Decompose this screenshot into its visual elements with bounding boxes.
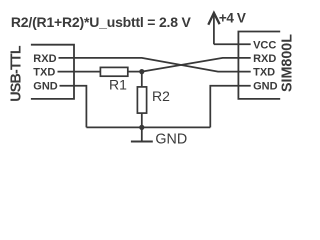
svg-text:USB-TTL: USB-TTL	[9, 45, 25, 102]
wire RXD(USB-TTL) to TXD(SIM800L)	[59, 58, 251, 72]
svg-text:R2/(R1+R2)*U_usbttl = 2.8 V: R2/(R1+R2)*U_usbttl = 2.8 V	[11, 14, 192, 30]
wire TXD(USB-TTL) to R1	[58, 71, 101, 73]
SIM800L module	[238, 32, 280, 99]
wire R1 to node A	[128, 71, 142, 73]
wire node A to RXD(SIM800L)	[142, 58, 251, 72]
ground rail junction dot	[139, 125, 144, 130]
node A junction dot	[139, 69, 144, 74]
svg-text:GND: GND	[253, 81, 278, 93]
svg-text:RXD: RXD	[33, 53, 56, 65]
svg-text:SIM800L: SIM800L	[280, 34, 296, 92]
svg-text:TXD: TXD	[253, 67, 275, 79]
wire GND(USB-TTL) down to ground rail	[60, 86, 87, 128]
wire GND(SIM800L) to ground rail	[210, 86, 250, 128]
+4 V supply arrow	[208, 13, 219, 45]
wire +4V to VCC(SIM800L)	[214, 43, 251, 45]
wire node A down to R2	[141, 72, 143, 87]
svg-text:VCC: VCC	[253, 39, 276, 51]
resistor R1	[100, 67, 127, 76]
svg-text:TXD: TXD	[33, 67, 55, 79]
svg-text:R1: R1	[109, 77, 127, 93]
ground rail wire	[86, 126, 210, 128]
svg-text:GND: GND	[33, 81, 58, 93]
USB-TTL module	[31, 45, 74, 99]
wire R2 to ground rail	[141, 113, 143, 127]
svg-text:R2: R2	[152, 88, 170, 104]
svg-text:RXD: RXD	[253, 53, 276, 65]
ground symbol	[141, 127, 143, 141]
resistor R2	[137, 87, 146, 113]
svg-text:+4 V: +4 V	[219, 11, 246, 26]
svg-text:GND: GND	[155, 131, 187, 147]
